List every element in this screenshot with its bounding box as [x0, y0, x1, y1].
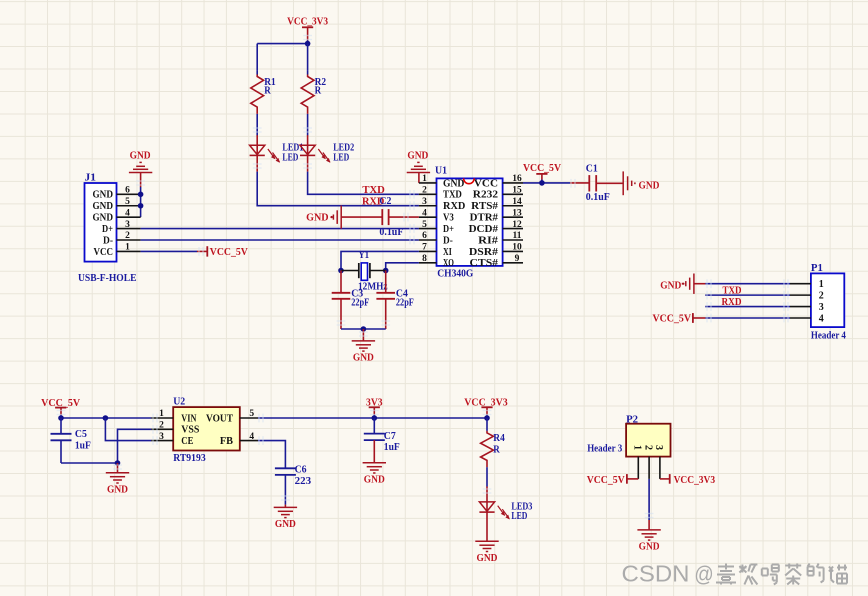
crystal Y1: [341, 249, 388, 292]
svg-text:GND: GND: [107, 483, 128, 495]
svg-text:6: 6: [422, 231, 427, 241]
U2 pin 3: [151, 432, 173, 442]
svg-text:4: 4: [249, 432, 254, 442]
P2 pin 2: [648, 457, 650, 479]
junction dot: [539, 180, 545, 186]
wire: [307, 71, 309, 75]
svg-text:Header 3: Header 3: [587, 444, 622, 455]
junction dot: [361, 326, 367, 332]
svg-text:0.1uF: 0.1uF: [379, 227, 403, 238]
svg-text:VCC_5V: VCC_5V: [210, 246, 248, 258]
capacitor C5: [51, 418, 91, 463]
svg-text:223: 223: [295, 476, 312, 487]
svg-text:Header 4: Header 4: [811, 330, 847, 341]
svg-text:VIN: VIN: [181, 413, 197, 424]
junction dot: [103, 415, 109, 421]
U1 pin 14: [503, 197, 523, 207]
wire VSS: [118, 429, 152, 463]
svg-text:RXD: RXD: [722, 296, 742, 308]
svg-text:2: 2: [422, 186, 427, 196]
svg-text:4: 4: [422, 208, 427, 218]
svg-text:1uF: 1uF: [75, 440, 91, 451]
wire: [486, 487, 488, 493]
LED LED2: [300, 135, 354, 163]
svg-text:DCD#: DCD#: [469, 224, 498, 235]
svg-text:0.1uF: 0.1uF: [586, 192, 610, 203]
power port VCC_5V (U2): [41, 397, 80, 418]
no-ERC arc on U1: [464, 178, 475, 183]
svg-text:7: 7: [422, 243, 427, 253]
U1 pin 11: [503, 231, 523, 241]
P2 pin 3: [659, 457, 661, 479]
wire: [307, 156, 309, 172]
svg-text:R: R: [315, 84, 322, 96]
svg-text:VCC_3V3: VCC_3V3: [287, 16, 328, 28]
wire: [523, 182, 570, 184]
J1 pin 6: [117, 186, 141, 196]
U1 pin 2: [419, 186, 437, 196]
connector J1: [78, 172, 137, 285]
svg-text:GND: GND: [364, 473, 385, 485]
svg-text:@: @: [694, 562, 714, 587]
wire: [257, 43, 307, 45]
capacitor C2: [379, 195, 403, 238]
wire: [256, 156, 258, 172]
svg-text:9: 9: [515, 254, 520, 264]
power port GND (C2): [306, 206, 341, 229]
svg-text:D-: D-: [443, 235, 453, 246]
U1 pin 13: [503, 208, 523, 218]
power port VCC_3V3 (right): [464, 397, 508, 418]
svg-text:D+: D+: [102, 224, 113, 235]
wire: [307, 44, 309, 71]
svg-text:R4: R4: [493, 432, 505, 444]
svg-text:C7: C7: [384, 430, 396, 442]
svg-text:3: 3: [653, 445, 664, 450]
svg-text:GND: GND: [130, 150, 151, 162]
svg-text:1: 1: [819, 279, 824, 290]
svg-text:GND: GND: [443, 178, 464, 189]
svg-text:1: 1: [422, 174, 427, 184]
svg-text:GND: GND: [93, 190, 114, 201]
capacitor C3: [332, 271, 370, 330]
svg-text:TXD: TXD: [723, 285, 742, 297]
svg-text:C6: C6: [295, 463, 307, 475]
svg-text:VCC: VCC: [474, 178, 498, 189]
svg-text:TXD: TXD: [443, 190, 462, 201]
svg-text:LED: LED: [511, 511, 527, 522]
resistor R4: [481, 431, 506, 467]
wire: [386, 263, 419, 271]
U2 pin 4: [240, 432, 258, 442]
svg-text:5: 5: [125, 197, 130, 207]
svg-text:RT9193: RT9193: [173, 452, 206, 464]
junction dot: [484, 415, 490, 421]
wire: [705, 283, 790, 285]
svg-text:12: 12: [512, 220, 522, 230]
svg-text:GND: GND: [407, 150, 428, 162]
wire VOUT to VCC_3V3: [258, 417, 487, 419]
J1 pin 4: [117, 208, 141, 218]
wire FB: [258, 441, 285, 469]
wire: [257, 172, 419, 206]
svg-text:P1: P1: [811, 262, 823, 274]
svg-text:3: 3: [819, 302, 824, 313]
LED LED1: [250, 135, 304, 163]
svg-text:22pF: 22pF: [351, 297, 369, 308]
svg-text:GND: GND: [639, 541, 660, 553]
U1 pin 7: [419, 243, 437, 253]
svg-text:VCC: VCC: [94, 247, 114, 258]
capacitor C6: [275, 463, 311, 504]
wire: [307, 114, 309, 136]
wire: [141, 250, 197, 252]
svg-text:GND: GND: [275, 518, 296, 530]
wire: [256, 44, 258, 71]
junction dot: [138, 203, 144, 209]
svg-text:C2: C2: [379, 195, 391, 207]
wire: [648, 479, 650, 520]
junction dot: [372, 415, 378, 421]
svg-text:U1: U1: [435, 164, 447, 176]
svg-text:1uF: 1uF: [384, 442, 400, 453]
svg-text:14: 14: [512, 197, 522, 207]
U1 pin 1: [419, 174, 437, 184]
capacitor C4: [376, 271, 414, 330]
U2 pin 1: [151, 409, 173, 419]
U1 pin 15: [503, 186, 523, 196]
svg-text:R: R: [493, 443, 500, 455]
junction dot: [383, 268, 389, 274]
wire D+: [141, 228, 419, 230]
compile marks: [57, 36, 788, 518]
svg-text:FB: FB: [220, 436, 233, 447]
wire: [389, 216, 419, 218]
P2 pin 1: [637, 457, 639, 479]
wire: [256, 71, 258, 75]
svg-text:VCC_3V3: VCC_3V3: [674, 474, 716, 486]
svg-text:DTR#: DTR#: [470, 213, 498, 224]
U1 pin 10: [503, 243, 523, 253]
power port GND (P2): [637, 520, 660, 553]
svg-text:U2: U2: [173, 396, 185, 408]
svg-text:RXD: RXD: [443, 201, 465, 212]
wire: [705, 317, 790, 319]
svg-text:GND: GND: [353, 352, 374, 364]
svg-text:VCC_5V: VCC_5V: [653, 313, 692, 325]
power port GND (LED3): [475, 540, 498, 542]
svg-text:CE: CE: [181, 436, 193, 447]
U1 pin 5: [419, 220, 437, 230]
wire: [341, 328, 386, 330]
svg-text:GND: GND: [93, 213, 114, 224]
svg-text:XI: XI: [443, 247, 452, 258]
wire: [486, 467, 488, 486]
LED LED3: [479, 492, 532, 522]
op-amp U1 (CH340G IC body): [435, 164, 503, 279]
svg-text:R: R: [264, 84, 271, 96]
junction dot: [138, 192, 144, 198]
svg-text:4: 4: [125, 208, 130, 218]
svg-text:1: 1: [125, 243, 130, 253]
svg-text:V3: V3: [443, 213, 454, 224]
svg-text:Y1: Y1: [359, 249, 370, 261]
power port GND (P1): [660, 274, 705, 294]
wire: [61, 462, 118, 464]
svg-text:10: 10: [512, 243, 522, 253]
svg-text:LED: LED: [282, 152, 298, 163]
J1 pin 2: [117, 231, 141, 241]
U2 pin 2: [151, 421, 173, 431]
svg-text:3: 3: [125, 220, 130, 230]
svg-text:LED: LED: [333, 152, 349, 163]
wire: [341, 251, 419, 270]
svg-text:GND: GND: [306, 212, 329, 224]
power port GND (C1): [623, 171, 659, 195]
wire: [308, 172, 419, 195]
svg-text:CTS#: CTS#: [470, 258, 499, 269]
svg-text:CSDN: CSDN: [622, 561, 690, 587]
svg-text:J1: J1: [85, 172, 97, 184]
wire: [61, 417, 151, 419]
wire TXD: [705, 294, 790, 296]
svg-text:4: 4: [819, 313, 824, 324]
power port GND (C7): [363, 440, 386, 485]
svg-text:GND: GND: [660, 279, 681, 291]
svg-text:2: 2: [159, 421, 164, 431]
wire: [140, 187, 142, 217]
junction dot: [305, 41, 311, 47]
svg-text:R232: R232: [473, 190, 498, 201]
svg-text:VOUT: VOUT: [206, 413, 233, 424]
svg-text:13: 13: [512, 208, 522, 218]
svg-text:1: 1: [631, 445, 642, 450]
svg-text:11: 11: [513, 231, 522, 241]
wire: [256, 114, 258, 136]
svg-text:GND: GND: [93, 201, 114, 212]
power port 3V3: [366, 397, 383, 418]
svg-text:2: 2: [819, 291, 824, 302]
power port VCC_5V (P1): [653, 313, 706, 325]
watermark: [622, 561, 848, 587]
power port VCC_3V3 (P2): [660, 474, 716, 486]
wire: [596, 182, 623, 184]
P1 pin 3: [790, 306, 811, 308]
P1 pin 4: [790, 317, 811, 319]
power port GND (Y1): [352, 329, 375, 364]
capacitor C1: [586, 162, 610, 202]
svg-text:22pF: 22pF: [396, 297, 414, 308]
svg-text:D-: D-: [103, 235, 113, 246]
svg-text:USB-F-HOLE: USB-F-HOLE: [78, 273, 137, 284]
svg-text:8: 8: [422, 254, 427, 264]
svg-text:2: 2: [125, 231, 130, 241]
svg-text:P2: P2: [626, 413, 638, 425]
P1 pin 2: [790, 294, 811, 296]
power port VCC_5V (P2): [587, 474, 639, 486]
svg-text:C1: C1: [586, 162, 598, 174]
svg-text:1: 1: [159, 409, 164, 419]
U1 pin 12: [503, 220, 523, 230]
U1 pin 8: [419, 254, 437, 264]
U1 pin 4: [419, 208, 437, 218]
wire RXD: [705, 306, 790, 308]
power port VCC_3V3: [287, 16, 328, 44]
resistor R2: [301, 75, 326, 114]
U2 pin 5: [240, 409, 258, 419]
svg-text:6: 6: [125, 186, 130, 196]
J1 pin 1: [117, 243, 141, 253]
svg-text:5: 5: [422, 220, 427, 230]
wire: [486, 512, 488, 541]
svg-text:RI#: RI#: [478, 235, 498, 246]
svg-text:D+: D+: [443, 224, 454, 235]
svg-text:GND: GND: [639, 179, 660, 191]
junction dot: [338, 268, 344, 274]
svg-text:VSS: VSS: [181, 425, 200, 436]
svg-text:5: 5: [249, 409, 254, 419]
U1 pin 16: [503, 174, 523, 184]
svg-text:3: 3: [422, 197, 427, 207]
svg-text:16: 16: [512, 174, 522, 184]
wire D-: [141, 239, 419, 241]
svg-text:VCC_5V: VCC_5V: [523, 162, 561, 174]
J1 pin 3: [117, 220, 141, 230]
svg-text:C5: C5: [75, 428, 87, 440]
junction dot: [115, 460, 121, 466]
svg-text:3: 3: [159, 432, 164, 442]
power port GND (C5): [106, 463, 129, 495]
regulator U2 RT9193: [173, 396, 240, 464]
power port GND (J1): [129, 150, 152, 188]
svg-text:CH340G: CH340G: [437, 267, 473, 279]
J1 pin 5: [117, 197, 141, 207]
connector P2: [587, 413, 670, 456]
svg-text:VCC_5V: VCC_5V: [587, 474, 625, 486]
svg-text:GND: GND: [477, 552, 498, 564]
U1 pin 9: [503, 254, 523, 264]
resistor R1: [251, 75, 276, 114]
wire CE: [105, 418, 151, 441]
capacitor C7: [364, 418, 400, 453]
P1 pin 1: [790, 283, 811, 285]
power port VCC_5V (J1): [197, 246, 248, 258]
power port GND (C6): [274, 505, 297, 530]
U1 pin 6: [419, 231, 437, 241]
wire: [486, 418, 488, 431]
svg-text:DSR#: DSR#: [469, 247, 498, 258]
connector P1: [811, 262, 847, 341]
power port GND (U1 pin1): [407, 150, 430, 183]
svg-text:15: 15: [512, 186, 522, 196]
U1 pin 3: [419, 197, 437, 207]
junction dot: [58, 415, 64, 421]
wire: [341, 216, 382, 218]
svg-text:RTS#: RTS#: [471, 201, 498, 212]
power port VCC_5V (U1 pin16): [523, 162, 561, 183]
wire: [570, 182, 589, 184]
svg-text:2: 2: [642, 445, 653, 450]
